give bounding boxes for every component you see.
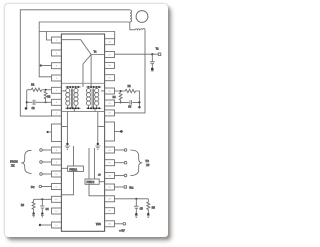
wire L2 down xyxy=(115,30,146,113)
left pin boxes xyxy=(52,37,62,228)
svg-text:4: 4 xyxy=(56,78,58,80)
svg-text:10: 10 xyxy=(55,174,58,176)
node RC right xyxy=(138,101,140,103)
svg-text:28: 28 xyxy=(108,199,111,201)
capacitor C4 xyxy=(40,199,45,213)
svg-text:6: 6 xyxy=(56,102,58,104)
svg-text:11: 11 xyxy=(55,186,58,188)
node C5 xyxy=(135,198,137,200)
inductor L2 xyxy=(130,22,145,30)
ground C1 xyxy=(151,68,154,71)
svg-text:23: 23 xyxy=(108,113,111,115)
node R2 top xyxy=(45,89,47,91)
T1 dots top xyxy=(67,86,80,88)
wire PWM1 return xyxy=(61,171,73,194)
left RC wire top xyxy=(27,89,31,91)
wire W1 top xyxy=(20,10,130,116)
svg-text:29: 29 xyxy=(108,211,111,213)
terminal in3 xyxy=(40,173,43,176)
wire to pin 1 xyxy=(46,32,51,41)
transformer lower rail xyxy=(61,111,104,113)
node C4 top xyxy=(41,198,43,200)
T2 top wire xyxy=(86,86,101,88)
ground C5 xyxy=(135,213,137,215)
T1 core xyxy=(71,89,72,109)
inductor L1 xyxy=(130,10,132,22)
svg-text:25: 25 xyxy=(108,163,111,165)
svg-text:7: 7 xyxy=(56,113,58,115)
T2 core xyxy=(92,89,93,109)
left pin numbers xyxy=(55,40,58,227)
svg-text:Tx: Tx xyxy=(156,47,160,51)
terminal out3 xyxy=(124,174,127,177)
right pin boxes xyxy=(105,39,115,227)
svg-text:R2: R2 xyxy=(47,97,51,99)
svg-text:12: 12 xyxy=(55,199,58,201)
svg-text:FROM: FROM xyxy=(10,161,17,164)
wire Vcc xyxy=(115,223,124,225)
node Tx xyxy=(151,53,153,55)
module U1 body xyxy=(61,34,104,231)
transformer upper rail xyxy=(61,82,104,84)
svg-text:27: 27 xyxy=(108,187,111,189)
svg-text:PWM 1: PWM 1 xyxy=(70,169,78,171)
svg-text:R1: R1 xyxy=(31,85,35,87)
node R4 top xyxy=(120,90,122,92)
wire bottom row xyxy=(40,224,52,226)
svg-text:C3: C3 xyxy=(128,107,132,109)
svg-text:8: 8 xyxy=(56,150,58,152)
block K2 right xyxy=(105,122,115,141)
T1 dots bottom xyxy=(67,107,80,109)
svg-text:1: 1 xyxy=(56,40,58,42)
T2 dots bottom xyxy=(87,107,100,109)
T1 bottom wire xyxy=(66,107,81,109)
svg-text:Tx: Tx xyxy=(94,50,97,53)
svg-text:22: 22 xyxy=(108,103,111,105)
capacitor C1 xyxy=(150,54,155,68)
ground drop right xyxy=(98,112,105,144)
node row dot xyxy=(120,130,123,133)
capacitor C5 xyxy=(134,199,139,214)
internal split lines xyxy=(83,55,91,88)
T1 top wire xyxy=(66,86,81,88)
T2 bottom wire xyxy=(86,107,101,109)
rail stub T2 xyxy=(101,90,105,92)
wire in3 xyxy=(42,173,51,175)
rail stub T1 xyxy=(61,90,65,92)
resistor R4 xyxy=(119,92,122,101)
block K1 left xyxy=(52,124,62,142)
wires to PWM2 xyxy=(89,148,95,179)
capacitor C2L wire xyxy=(27,100,52,105)
wire W3 to pin 19 xyxy=(39,32,115,39)
wire Pw xyxy=(42,186,52,188)
svg-text:9: 9 xyxy=(56,162,58,164)
wire out3 xyxy=(115,175,125,177)
node gnd right xyxy=(97,143,99,145)
svg-text:3: 3 xyxy=(56,66,58,68)
svg-text:C5: C5 xyxy=(140,209,144,211)
svg-text:16: 16 xyxy=(108,65,111,67)
right pin numbers xyxy=(108,42,111,226)
wire in2 xyxy=(42,161,51,163)
svg-text:30: 30 xyxy=(108,224,111,226)
terminal in1 xyxy=(40,149,43,152)
svg-text:26: 26 xyxy=(108,175,111,177)
svg-text:PWM 2: PWM 2 xyxy=(87,182,95,184)
svg-text:24: 24 xyxy=(108,150,111,152)
ground R5 xyxy=(147,213,149,215)
resistor R6 xyxy=(32,199,35,213)
wire out2 xyxy=(115,162,125,164)
svg-text:15: 15 xyxy=(108,78,111,80)
wire PWM2 return xyxy=(89,184,105,196)
brace left xyxy=(21,150,31,173)
wire PWM1 in xyxy=(61,167,67,169)
svg-text:Fxx: Fxx xyxy=(129,186,134,189)
node bottom row xyxy=(39,224,41,226)
right RC wire top xyxy=(115,89,140,102)
svg-text:R3: R3 xyxy=(128,86,132,88)
node gnd left xyxy=(66,143,68,145)
svg-text:5: 5 xyxy=(56,90,58,92)
ground right xyxy=(95,146,100,149)
transducer circle xyxy=(136,11,148,23)
node R2 bottom xyxy=(45,101,47,103)
node R4 bottom xyxy=(120,101,122,103)
terminal out1 xyxy=(124,149,127,152)
svg-text:13: 13 xyxy=(55,211,58,213)
svg-text:XX: XX xyxy=(11,165,15,168)
node end xyxy=(138,106,140,108)
wire Fx xyxy=(115,186,125,188)
svg-text:X?: X? xyxy=(146,164,150,167)
wire PWM2 stub xyxy=(99,181,104,183)
T1 winding B xyxy=(74,87,78,108)
left RC left edge xyxy=(26,90,28,109)
right bottom RC wire xyxy=(115,198,149,200)
svg-text:VSS: VSS xyxy=(96,224,101,226)
svg-text:R4: R4 xyxy=(113,97,117,99)
T2 winding B xyxy=(95,87,99,108)
T2 dots top xyxy=(87,86,100,88)
ground left xyxy=(65,146,70,149)
svg-text:14: 14 xyxy=(55,225,58,227)
wire out1 xyxy=(115,149,125,151)
svg-text:+ 5V: + 5V xyxy=(119,230,125,233)
svg-text:R6: R6 xyxy=(21,205,25,207)
svg-text:Pw: Pw xyxy=(31,186,35,189)
arrow into pin3 xyxy=(40,64,42,66)
brace right xyxy=(130,150,142,176)
node RC end xyxy=(25,107,28,110)
resistor R1 xyxy=(31,88,52,91)
svg-text:TO: TO xyxy=(145,160,148,163)
block PWM1 xyxy=(68,166,84,171)
T2 center tap xyxy=(94,108,96,111)
right RC wire bottom with capacitor C3R xyxy=(115,100,140,104)
terminal Fx xyxy=(124,186,126,188)
svg-text:#7: #7 xyxy=(98,174,101,176)
wire to PWM1 xyxy=(73,146,75,166)
block PWM2 xyxy=(85,179,99,184)
resistor R5 xyxy=(147,199,150,214)
ground R6 xyxy=(32,212,34,214)
T1 winding A xyxy=(66,87,70,108)
wire W2 xyxy=(39,22,130,77)
svg-text:C2: C2 xyxy=(32,108,36,110)
svg-text:21: 21 xyxy=(108,91,111,93)
T2 winding A xyxy=(86,87,90,108)
svg-text:C4: C4 xyxy=(46,209,50,211)
wire Tx xyxy=(115,53,159,55)
svg-text:2: 2 xyxy=(56,53,58,55)
svg-text:R5: R5 xyxy=(152,207,156,209)
resistor R2 xyxy=(44,91,47,101)
wire row dot xyxy=(115,130,121,132)
terminal Tx xyxy=(158,53,161,56)
wire in1 xyxy=(42,149,51,151)
ground C4 xyxy=(41,212,43,214)
left bottom RC wire xyxy=(34,198,52,200)
T1 center tap xyxy=(73,108,75,111)
svg-text:19: 19 xyxy=(108,42,111,44)
node RC left xyxy=(26,101,28,103)
terminal Vcc xyxy=(123,223,126,226)
stub down xyxy=(138,102,140,106)
svg-text:17: 17 xyxy=(108,54,111,56)
terminal Pw xyxy=(39,185,41,187)
arrow into K1 xyxy=(47,131,49,133)
terminal in2 xyxy=(40,161,43,164)
internal node line xyxy=(61,40,104,55)
ground drop left xyxy=(61,112,67,144)
terminal out2 xyxy=(124,161,127,164)
